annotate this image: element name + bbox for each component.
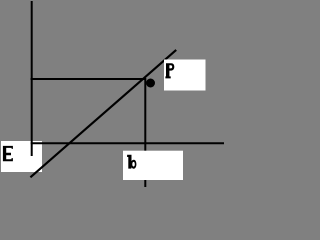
- point dot: [146, 79, 155, 88]
- vertical wire at b: [144, 78, 146, 187]
- label E (glyph path): [3, 146, 13, 161]
- label P (glyph path): [165, 63, 174, 78]
- label b (glyph path): [127, 155, 136, 169]
- label box P: [164, 60, 206, 91]
- label box b: [123, 151, 183, 180]
- top horizontal wire: [31, 78, 147, 80]
- diagonal line: [30, 50, 176, 177]
- label box E: [1, 141, 42, 172]
- long horizontal wire: [31, 142, 224, 144]
- y-axis: [31, 1, 33, 156]
